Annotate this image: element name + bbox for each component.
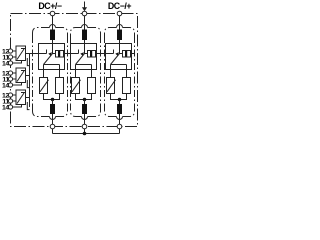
wire from top terminal into module M1: [52, 16, 54, 30]
FM chain vertical wire: [29, 54, 31, 108]
branch join M1: [44, 94, 60, 100]
fuse M1 over chain: [56, 51, 64, 58]
varistor M2: [72, 78, 80, 94]
FM chain jog block 3: [27, 102, 29, 110]
series element M1: [56, 78, 64, 94]
wire: [52, 40, 54, 54]
svg-text:DC−/+: DC−/+: [108, 1, 131, 11]
branch join M3: [111, 94, 127, 100]
varistor M1: [40, 78, 48, 94]
thermal disconnector bar bottom M1: [50, 104, 55, 114]
series element M3: [123, 78, 131, 94]
wire: [119, 40, 121, 54]
switch bottom contact bar: [111, 64, 127, 66]
fuse M2 over chain: [88, 51, 96, 58]
thermal disconnector bar top M2: [82, 30, 87, 41]
wire from top terminal into module M2: [84, 16, 86, 30]
FM terminal circles block 2: [8, 71, 12, 75]
module M1 enclosure (dash-dot): [33, 25, 68, 120]
earth arrow: [84, 2, 86, 9]
SCI switch box M3: [106, 44, 132, 70]
fuse in box M2: [88, 51, 96, 58]
thermal disconnector bar bottom M3: [117, 104, 122, 114]
switch bottom contact bar: [76, 64, 92, 66]
switch blade: [76, 54, 85, 65]
wire from top terminal into module M3: [119, 16, 121, 30]
module M2 enclosure (dash-dot): [71, 25, 101, 120]
FM chain stub block 1: [26, 53, 30, 55]
FM chain stub block 3: [26, 97, 30, 99]
auxiliary contact tick: [78, 50, 80, 54]
fuse in box M1: [56, 51, 64, 58]
FM changeover contact box 3: [16, 90, 26, 105]
svg-text:DC+/−: DC+/−: [38, 1, 61, 11]
outer enclosure (dash-dot): [11, 14, 138, 127]
varistor branch wires M1: [43, 70, 45, 78]
switch blade: [111, 54, 120, 65]
FM terminal wires block 2: [13, 72, 16, 74]
FM terminal wires block 1: [13, 50, 16, 52]
FM terminal wires block 3: [13, 94, 16, 96]
fuse in box M3: [123, 51, 131, 58]
thermal disconnector bar top M1: [50, 30, 55, 41]
SCI chain line segments: [26, 53, 135, 55]
FM changeover contact box 1: [16, 46, 26, 61]
top terminals: [50, 11, 55, 16]
FM changeover contact box 2: [16, 68, 26, 83]
earth bus: [52, 129, 54, 134]
auxiliary contact tick: [46, 50, 48, 54]
SCI switch box M1: [39, 44, 65, 70]
varistor branch wires M2: [75, 70, 77, 78]
auxiliary contact tick: [113, 50, 115, 54]
switch bottom contact bar: [44, 64, 60, 66]
switch blade: [44, 54, 53, 65]
fuse M3 over chain: [123, 51, 131, 58]
varistor branch wires M3: [110, 70, 112, 78]
series element M2: [88, 78, 96, 94]
wire: [84, 40, 86, 54]
SCI switch box M2: [71, 44, 97, 70]
FM chain stub block 2: [26, 75, 30, 77]
module M3 enclosure (dash-dot): [105, 25, 135, 120]
FM chain jog block 1: [27, 58, 29, 66]
FM terminal circles block 3: [8, 93, 12, 97]
FM chain jog block 2: [27, 80, 29, 88]
thermal disconnector bar bottom M2: [82, 104, 87, 114]
thermal disconnector bar top M3: [117, 30, 122, 41]
bottom terminals: [50, 124, 55, 129]
FM terminal circles block 1: [8, 49, 12, 53]
varistor M3: [107, 78, 115, 94]
branch join M2: [76, 94, 92, 100]
